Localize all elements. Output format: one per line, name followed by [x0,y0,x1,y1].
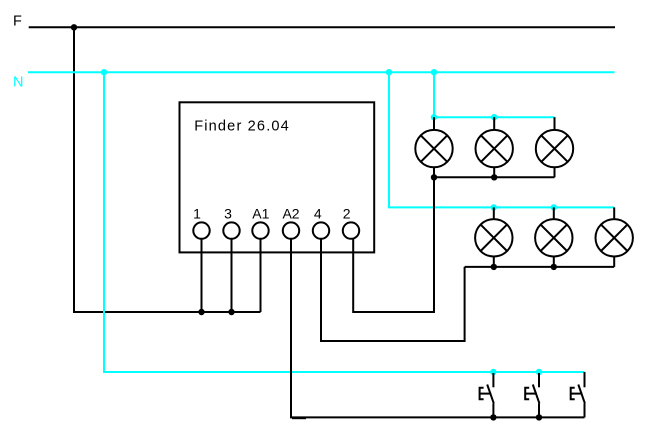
lamp L3 [536,130,573,167]
svg-text:A1: A1 [252,205,269,221]
junction lamp 4 bottom [491,264,497,270]
wire lamp 3 top stub [554,117,556,130]
svg-text:4: 4 [314,205,322,221]
svg-text:2: 2 [343,205,351,221]
terminal 2 [343,222,359,238]
lamp L5 [535,219,572,256]
wire lamp 6 bottom stub [613,257,615,267]
wire F bus [29,26,615,28]
junction lamp 2 bottom [491,174,497,180]
junction F drop [71,24,77,30]
wire terminal 1 stub [201,239,203,312]
junction button 2 top [536,369,542,375]
junction lamp 5 top [551,204,557,210]
junction lamp 1 top [431,114,437,120]
junction button 2 bottom [536,414,542,420]
terminal A2 [283,222,299,238]
wire lamp 4 top stub [493,207,495,219]
wire lamp 2 top stub [493,117,495,130]
terminal 4 [313,222,329,238]
terminal 1 [193,222,209,238]
svg-text:Finder 26.04: Finder 26.04 [194,119,290,135]
wire lamp row 1 to terminal 2 [353,177,434,312]
svg-text:A2: A2 [282,205,299,221]
wire lamp row 1 bottom bus [434,176,555,178]
wire overlap segment near A2 corner [292,417,306,419]
terminal 3 [223,222,239,238]
svg-text:3: 3 [224,205,232,221]
terminal A1 [252,222,268,238]
junction N to lamp row 1 [431,69,437,75]
wire N drop to button bus [104,72,585,372]
lamp L4 [475,219,512,256]
wire N drop to lamp row 2 [389,72,614,207]
wire lamp 6 top stub [613,207,615,219]
wire lamp 3 bottom stub [554,167,556,177]
wire lamp 1 bottom stub [433,167,435,177]
svg-text:1: 1 [193,205,201,221]
svg-text:N: N [13,75,24,91]
svg-text:F: F [13,14,22,30]
junction N to buttons [101,69,107,75]
pushbutton S1 [480,373,494,417]
wire lamp row 2 to terminal 4 [321,239,465,341]
wire lamp 4 bottom stub [493,257,495,267]
junction lamp 1 bottom [431,174,437,180]
wire lamp 1 top stub [433,117,435,130]
wire terminal A1 stub [260,239,262,312]
junction lamp 2 top [491,114,497,120]
junction terminal 1 [198,309,204,315]
lamp L1 [415,130,452,167]
wire terminal 3 stub [231,239,233,312]
wire lamp 2 bottom stub [493,167,495,177]
lamp L6 [596,219,633,256]
junction button 1 top [490,369,496,375]
junction lamp 4 top [491,204,497,210]
wire terminal A2 to button bus [291,239,585,418]
junction N to lamp row 2 [386,69,392,75]
wire lamp 5 bottom stub [553,257,555,267]
lamp L2 [476,130,513,167]
pushbutton S2 [525,373,539,417]
relay U1 Finder 26.04 [180,102,375,252]
wire N bus [28,71,615,73]
junction button 1 bottom [490,414,496,420]
wire F drop to terminals 1,3,A1 [74,27,261,312]
wire lamp 5 top stub [553,207,555,219]
pushbutton S3 [571,372,585,417]
junction terminal 3 [228,309,234,315]
wire lamp row 2 bottom bus [465,266,615,268]
wire N drop to lamp row 1 [434,72,555,117]
junction lamp 5 bottom [551,264,557,270]
